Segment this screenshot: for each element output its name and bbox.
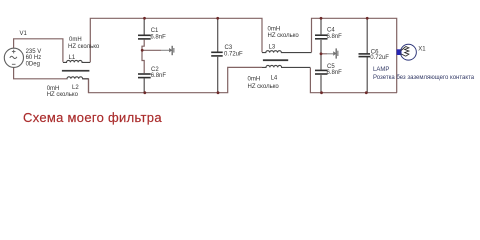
junction dot rail C6 (366, 17, 369, 20)
capacitor C5 (315, 70, 328, 74)
lamp X1 filament (401, 47, 409, 57)
junction dot bottom C5 (320, 91, 323, 94)
svg-text:6.8nF: 6.8nF (150, 34, 166, 40)
svg-text:HZ сколько: HZ сколько (268, 33, 300, 39)
wire stub to connector 2 (321, 53, 327, 55)
svg-text:0mH: 0mH (268, 26, 281, 32)
wire L2 right terminal to bottom rail (83, 79, 89, 93)
svg-text:HZ сколько: HZ сколько (248, 84, 280, 90)
transformer T1 core (62, 70, 90, 72)
junction dot rail C1 (143, 17, 146, 20)
wire V1 bottom lead (14, 67, 67, 79)
wire C4-C5 link with tap (320, 40, 322, 70)
svg-text:0mH: 0mH (47, 86, 60, 92)
wire C6 branch (366, 18, 368, 53)
junction dot tap 2 (320, 52, 323, 55)
svg-text:6.8nF: 6.8nF (327, 70, 343, 76)
svg-text:0Deg: 0Deg (26, 61, 40, 67)
wire C3 bottom lead (217, 57, 219, 93)
svg-text:C2: C2 (151, 67, 159, 73)
wire C1-C2 jog with tap (142, 40, 144, 73)
svg-text:Розетка без заземляющего конта: Розетка без заземляющего контакта (373, 75, 475, 81)
junction dot bottom C2 (143, 91, 146, 94)
svg-text:C4: C4 (327, 28, 335, 34)
junction dot bottom C3 (217, 91, 220, 94)
capacitor C4 (315, 35, 328, 39)
svg-text:0mH: 0mH (248, 77, 261, 83)
junction dot bottom C6 (365, 91, 368, 94)
capacitor C3 (211, 52, 223, 56)
on-page connector 1 (169, 46, 174, 55)
svg-text:0.72uF: 0.72uF (370, 55, 389, 61)
svg-text:C1: C1 (151, 28, 159, 34)
svg-text:X1: X1 (418, 46, 426, 52)
wire C4 branch (320, 18, 322, 34)
svg-text:L4: L4 (271, 75, 278, 81)
wire C6 bottom lead (366, 57, 368, 93)
svg-text:V1: V1 (20, 31, 28, 37)
lamp X1 bulb (400, 44, 416, 60)
wire bottom rail left segment (89, 67, 263, 92)
wire C1 branch from top rail (143, 18, 145, 34)
capacitor C6 (359, 54, 371, 57)
wire C2 bottom lead (143, 78, 145, 92)
inductor L2 (67, 77, 89, 79)
svg-text:6.8nF: 6.8nF (327, 34, 343, 40)
svg-text:HZ сколько: HZ сколько (47, 92, 79, 98)
svg-text:L3: L3 (269, 44, 276, 50)
wire top rail left segment (90, 18, 262, 62)
inductor L1 (63, 60, 90, 62)
capacitor C1 (138, 35, 151, 39)
wire C5 bottom lead (320, 75, 322, 93)
svg-text:6.8nF: 6.8nF (151, 73, 167, 79)
wire top rail right segment (312, 18, 397, 92)
svg-text:C5: C5 (327, 64, 335, 70)
svg-text:0.72uF: 0.72uF (224, 51, 243, 57)
on-page connector 2 (333, 48, 338, 58)
svg-text:L2: L2 (72, 85, 79, 91)
AC source V1 (4, 48, 23, 67)
junction dot rail C4 (320, 17, 323, 20)
junction dot rail C3 (216, 17, 219, 20)
capacitor C2 (138, 74, 151, 78)
wire bottom rail right segment (310, 68, 397, 93)
lamp X1 pin square (397, 49, 402, 55)
junction dot tap 1 (141, 49, 144, 52)
svg-text:L1: L1 (69, 55, 76, 61)
inductor L4 (262, 65, 310, 67)
svg-text:HZ сколько: HZ сколько (68, 44, 100, 50)
svg-text:0mH: 0mH (69, 37, 82, 43)
svg-text:C3: C3 (225, 45, 233, 51)
wire stub to connector 1 (142, 49, 161, 51)
svg-text:60 Hz: 60 Hz (26, 55, 42, 61)
svg-text:235 V: 235 V (26, 49, 42, 55)
transformer T2 core (263, 59, 288, 61)
wire V1 top lead to L1 (14, 39, 63, 62)
svg-text:Схема моего фильтра: Схема моего фильтра (23, 110, 162, 125)
wire C3 branch (217, 18, 219, 51)
inductor L3 (262, 51, 312, 53)
svg-text:LAMP: LAMP (373, 67, 389, 73)
